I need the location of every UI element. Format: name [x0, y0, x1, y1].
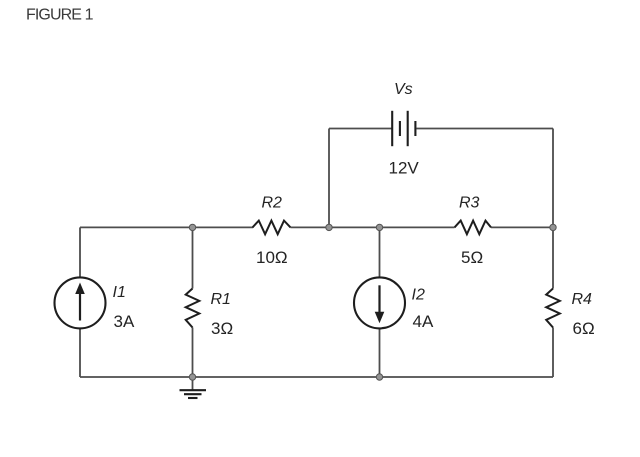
- node C (I2 top junction): [376, 224, 382, 230]
- current source I2: [354, 277, 405, 328]
- wire battery left drop: [328, 129, 330, 228]
- resistor R3: [455, 221, 492, 235]
- node B (battery left junction): [326, 224, 332, 230]
- node D (battery right junction): [550, 224, 556, 230]
- svg-text:5Ω: 5Ω: [461, 248, 483, 267]
- wire I1 branch top: [79, 227, 81, 277]
- svg-text:R1: R1: [211, 291, 231, 308]
- svg-text:R2: R2: [262, 195, 283, 212]
- svg-text:10Ω: 10Ω: [256, 248, 288, 267]
- wire R1 branch bottom: [192, 328, 194, 378]
- svg-text:3A: 3A: [114, 312, 135, 331]
- wire battery right lead: [417, 128, 554, 130]
- wire battery right drop: [552, 129, 554, 228]
- wire I2 branch bottom: [379, 328, 381, 377]
- node E (ground junction): [189, 374, 195, 380]
- svg-text:4A: 4A: [413, 312, 434, 331]
- resistor R2: [253, 221, 291, 235]
- ground: [180, 390, 207, 398]
- wire middle center segment: [291, 226, 455, 228]
- wire R4 branch top: [552, 227, 554, 288]
- wire middle left segment: [80, 226, 253, 228]
- svg-text:Vs: Vs: [394, 81, 413, 98]
- battery Vs: [392, 111, 415, 146]
- svg-text:R4: R4: [572, 291, 593, 308]
- node A (R1 top junction): [189, 224, 195, 230]
- svg-text:3Ω: 3Ω: [211, 319, 233, 338]
- wire bottom rail: [80, 376, 553, 378]
- svg-text:I1: I1: [113, 284, 126, 301]
- wire middle right segment: [491, 226, 553, 228]
- node F (I2 bottom junction): [376, 374, 382, 380]
- wire I2 branch top: [379, 227, 381, 277]
- current source I1: [55, 277, 106, 328]
- svg-text:FIGURE 1: FIGURE 1: [26, 7, 94, 24]
- wire battery left lead: [329, 128, 392, 130]
- wire I1 branch bottom: [79, 328, 81, 377]
- wire R4 branch bottom: [552, 328, 554, 378]
- wire ground stub: [192, 377, 194, 390]
- svg-text:12V: 12V: [389, 159, 420, 178]
- resistor R4: [546, 289, 560, 328]
- svg-text:I2: I2: [412, 287, 425, 304]
- svg-text:R3: R3: [459, 195, 480, 212]
- resistor R1: [186, 289, 200, 328]
- wire R1 branch top: [192, 227, 194, 288]
- svg-text:6Ω: 6Ω: [573, 319, 595, 338]
